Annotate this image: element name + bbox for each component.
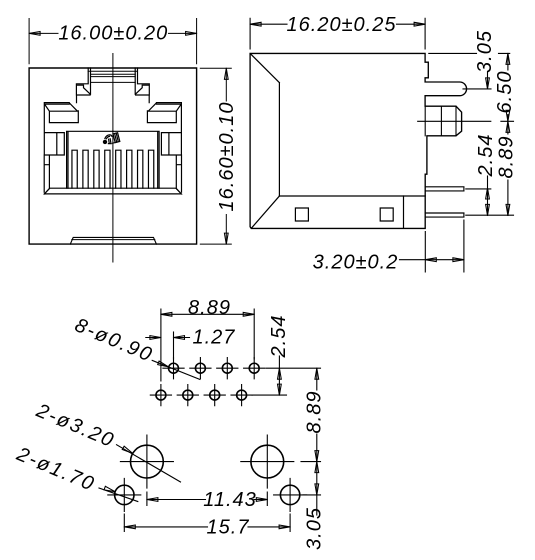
svg-text:3.05: 3.05 <box>474 30 496 73</box>
svg-text:16.60±0.10: 16.60±0.10 <box>216 102 238 212</box>
svg-text:6.50: 6.50 <box>494 71 516 114</box>
svg-text:1.27: 1.27 <box>193 327 236 349</box>
svg-text:15.7: 15.7 <box>207 516 250 538</box>
svg-text:2.54: 2.54 <box>475 134 497 178</box>
svg-text:3.20±0.2: 3.20±0.2 <box>313 251 399 273</box>
svg-text:16.20±0.25: 16.20±0.25 <box>287 14 397 36</box>
svg-text:11.43: 11.43 <box>203 489 257 511</box>
svg-text:8.89: 8.89 <box>188 297 231 319</box>
svg-text:8.89: 8.89 <box>496 136 518 179</box>
svg-text:3.05: 3.05 <box>304 507 326 550</box>
svg-text:2.54: 2.54 <box>268 315 290 359</box>
svg-text:16.00±0.20: 16.00±0.20 <box>58 23 168 45</box>
svg-text:8.89: 8.89 <box>304 391 326 434</box>
